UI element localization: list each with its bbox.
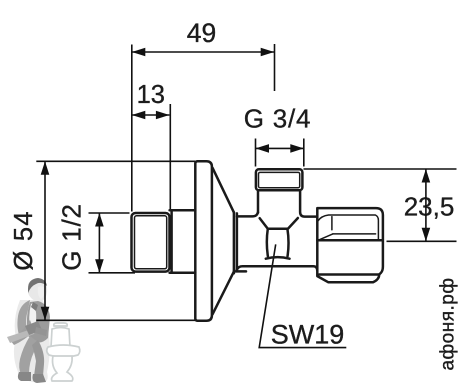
dimension 49 <box>132 18 275 212</box>
arrowhead bottom D54 <box>41 307 50 321</box>
SW19 hex blob left side <box>267 229 268 257</box>
arrowhead bottom 23,5 <box>422 228 431 242</box>
outlet nut outline <box>317 208 383 282</box>
SW19 hex blob top <box>268 227 288 230</box>
extension line bottom D54 <box>36 319 195 321</box>
arm + wrench <box>10 320 34 345</box>
dimension D54 <box>10 161 195 320</box>
extension line right of 49 <box>274 44 276 91</box>
body top edge left <box>237 212 258 216</box>
leader line SW19 <box>259 244 346 347</box>
transition diagonal right <box>288 218 298 228</box>
flange cone top edge <box>213 168 234 213</box>
arrowhead left 13 <box>132 111 146 120</box>
watermark plumber figure <box>7 278 50 383</box>
dimension 23,5 <box>304 169 457 241</box>
body bottom edge <box>237 266 317 270</box>
svg-text:SW19: SW19 <box>271 320 345 350</box>
extension line left of 49 <box>131 45 133 212</box>
dimension G 1/2 <box>57 203 136 273</box>
shank bottom edge <box>170 271 196 274</box>
extension line right G3/4 <box>303 139 305 167</box>
shank top edge <box>170 209 196 212</box>
nut facet horizontal <box>333 233 376 235</box>
nut bottom inner line <box>319 273 379 276</box>
svg-text:афоня.рф: афоня.рф <box>438 277 459 370</box>
SW19 hex blob right side <box>287 229 288 257</box>
G1/2 male thread outer <box>132 213 170 272</box>
dimension line 49 <box>132 51 274 53</box>
svg-text:G 3/4: G 3/4 <box>244 104 312 134</box>
arrowhead left G3/4 <box>256 144 270 153</box>
dimension line G1/2 <box>98 213 100 273</box>
head <box>28 278 47 302</box>
G3/4 thread inner lines <box>259 172 300 187</box>
vertical pipe right edge with fillet <box>300 190 317 216</box>
arrowhead top 23,5 <box>422 169 431 183</box>
svg-text:Ø 54: Ø 54 <box>10 210 38 270</box>
svg-text:23,5: 23,5 <box>404 191 455 221</box>
transition diagonal left <box>260 218 268 228</box>
shadow blob behind <box>14 300 50 382</box>
bowtie <box>31 302 38 311</box>
nut facet vertical left <box>331 217 333 230</box>
dimension line G3/4 <box>256 147 304 149</box>
label SW19 with leader <box>259 244 346 349</box>
thread relief groove <box>170 210 173 272</box>
dimension line D54 <box>44 161 46 320</box>
legs <box>19 336 38 374</box>
dimension line 23,5 <box>425 169 427 241</box>
body bottom stub at neck <box>234 270 246 273</box>
SW19 hex blob bottom <box>266 257 290 259</box>
dimension 13 <box>132 81 171 209</box>
nut mid line <box>317 239 382 242</box>
nut inner top face <box>318 215 379 240</box>
G3/4 thread box <box>256 169 303 190</box>
neck ring inner line <box>236 213 239 271</box>
arrowhead bottom G1/2 <box>95 259 104 273</box>
shirt <box>29 303 36 334</box>
extension line bottom 23,5 <box>387 240 457 242</box>
arrowhead left 49 <box>132 48 146 57</box>
label G 3/4 <box>244 104 312 167</box>
dimension line 13 <box>132 114 170 116</box>
extension line top 23,5 <box>304 168 457 170</box>
neck ring outer line <box>233 212 236 273</box>
extension line top G1/2 <box>89 212 130 214</box>
vertical pipe left edge <box>257 190 260 212</box>
watermark toilet <box>47 323 80 381</box>
extension line bottom G1/2 <box>89 272 136 274</box>
shoes <box>18 372 31 381</box>
svg-text:49: 49 <box>187 18 216 48</box>
extension line left G3/4 <box>255 139 257 167</box>
G1/2 male thread inner line <box>135 216 167 269</box>
extension line top D54 <box>36 160 195 162</box>
nut facet diagonal left <box>319 234 333 240</box>
flange cone bottom edge <box>213 272 234 315</box>
flange rim <box>195 161 212 320</box>
arrowhead top D54 <box>41 161 50 175</box>
svg-text:13: 13 <box>137 81 165 109</box>
extension line right of 13 <box>169 104 171 209</box>
arrowhead top G1/2 <box>95 213 104 227</box>
arrowhead right G3/4 <box>290 144 304 153</box>
svg-text:G 1/2: G 1/2 <box>57 203 87 271</box>
arrowhead right 13 <box>156 111 170 120</box>
torso suit <box>17 300 30 340</box>
arrowhead right 49 <box>261 48 275 57</box>
